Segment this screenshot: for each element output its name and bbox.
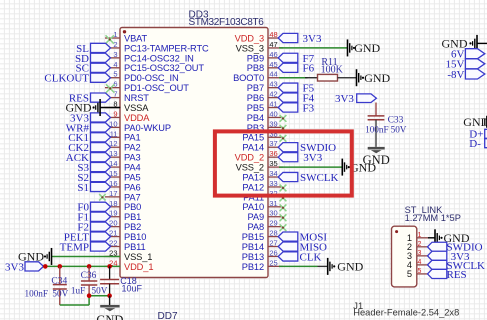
svg-text:PC15-OSC32_OUT: PC15-OSC32_OUT bbox=[124, 63, 204, 73]
no-connect X pin 31 bbox=[280, 204, 287, 211]
pin 39 PB3 bbox=[268, 126, 283, 128]
ground GND at pin 35 bbox=[341, 159, 343, 176]
svg-text:PB10: PB10 bbox=[124, 232, 146, 242]
port SWCLK (ST_LINK pin 4) bbox=[428, 260, 447, 269]
ST_LINK pin 2 bbox=[417, 246, 428, 248]
port 3V3 (pin 36) bbox=[278, 153, 298, 162]
svg-text:C36: C36 bbox=[81, 271, 97, 281]
svg-text:30: 30 bbox=[269, 209, 277, 218]
ST_LINK pin 3 bbox=[417, 255, 428, 257]
svg-text:36: 36 bbox=[269, 149, 277, 158]
port SWCLK (pin 34) bbox=[278, 172, 298, 181]
pin 33 PA12 bbox=[268, 186, 283, 188]
pin 35 VSS_2 bbox=[268, 166, 283, 168]
svg-text:PA2: PA2 bbox=[124, 143, 141, 153]
svg-text:9: 9 bbox=[113, 109, 117, 118]
svg-text:31: 31 bbox=[269, 199, 277, 208]
pin 21 PB10 bbox=[105, 236, 120, 238]
pin 46 PB9 bbox=[268, 57, 283, 59]
junction C36 bottom bbox=[87, 293, 92, 298]
svg-text:PA5: PA5 bbox=[124, 172, 141, 182]
port F7 (pin 46) bbox=[278, 53, 298, 62]
ground GND at R11 bbox=[356, 69, 358, 86]
svg-text:3V3: 3V3 bbox=[303, 33, 322, 45]
svg-text:S1: S1 bbox=[77, 182, 89, 194]
svg-text:17: 17 bbox=[109, 189, 117, 198]
wire pin44 BOOT0 to R11 bbox=[279, 77, 308, 79]
svg-text:39: 39 bbox=[269, 119, 277, 128]
svg-text:PA1: PA1 bbox=[124, 133, 141, 143]
ST_LINK pin 5 bbox=[417, 273, 428, 275]
svg-text:PB7: PB7 bbox=[247, 83, 264, 93]
pin 40 PB4 bbox=[268, 116, 283, 118]
selection box (red) bbox=[215, 131, 352, 195]
svg-text:1: 1 bbox=[113, 30, 117, 39]
pin 10 PA0-WKUP bbox=[105, 126, 120, 128]
wire ST_LINK pin1 to GND bbox=[428, 237, 435, 239]
pin 6 PD1-OSC_OUT bbox=[105, 87, 120, 89]
svg-text:PB6: PB6 bbox=[247, 93, 264, 103]
pin 42 PB6 bbox=[268, 97, 283, 99]
svg-text:37: 37 bbox=[269, 139, 277, 148]
svg-text:28: 28 bbox=[269, 229, 277, 238]
svg-text:5: 5 bbox=[407, 269, 412, 279]
svg-text:GND: GND bbox=[364, 71, 390, 85]
ground GND at pin 8 VSSA bbox=[100, 107, 120, 109]
wire pin35 VSS_2 to GND bbox=[279, 166, 342, 168]
svg-text:25: 25 bbox=[269, 258, 277, 267]
svg-text:PA10: PA10 bbox=[242, 202, 264, 212]
svg-text:100nF: 100nF bbox=[25, 288, 49, 298]
svg-text:DD7: DD7 bbox=[158, 311, 178, 320]
svg-text:1uF: 1uF bbox=[71, 286, 85, 296]
svg-text:3V3: 3V3 bbox=[335, 93, 354, 105]
svg-text:3: 3 bbox=[418, 250, 422, 257]
port F4 (pin 42) bbox=[278, 93, 298, 102]
port 3V3 (pin 48) bbox=[278, 33, 298, 42]
svg-text:Header-Female-2.54_2x8: Header-Female-2.54_2x8 bbox=[353, 308, 459, 318]
svg-text:47: 47 bbox=[269, 40, 277, 49]
port CLK (pin 26) bbox=[278, 252, 298, 261]
no-connect X pin 39 bbox=[280, 125, 287, 132]
no-connect X pin 40 bbox=[280, 115, 287, 122]
svg-text:2: 2 bbox=[418, 241, 422, 248]
svg-text:NRST: NRST bbox=[124, 93, 149, 103]
svg-text:PC14-OSC32_IN: PC14-OSC32_IN bbox=[124, 53, 194, 63]
wire pin25 PB12 to GND bbox=[279, 265, 318, 267]
svg-text:PB2: PB2 bbox=[124, 222, 141, 232]
svg-text:43: 43 bbox=[269, 80, 277, 89]
svg-text:SWCLK: SWCLK bbox=[300, 172, 339, 184]
svg-text:35: 35 bbox=[269, 159, 277, 168]
svg-text:PD1-OSC_OUT: PD1-OSC_OUT bbox=[124, 83, 189, 93]
svg-text:C34: C34 bbox=[51, 276, 67, 286]
ground GND at ST_LINK pin1 bbox=[434, 229, 436, 246]
svg-text:PB8: PB8 bbox=[247, 63, 264, 73]
pin 47 VSS_3 bbox=[268, 47, 283, 49]
svg-text:PC13-TAMPER-RTC: PC13-TAMPER-RTC bbox=[124, 43, 209, 53]
svg-text:26: 26 bbox=[269, 248, 277, 257]
capacitor C36 bbox=[88, 266, 90, 281]
svg-text:40: 40 bbox=[269, 109, 277, 118]
port RES (ST_LINK pin 5) bbox=[428, 269, 447, 278]
svg-text:VSS_1: VSS_1 bbox=[124, 252, 152, 262]
svg-text:VDD_3: VDD_3 bbox=[235, 33, 264, 43]
svg-text:3V3: 3V3 bbox=[5, 261, 24, 273]
svg-text:D-: D- bbox=[469, 138, 481, 150]
svg-text:27: 27 bbox=[269, 239, 277, 248]
svg-text:10uF: 10uF bbox=[122, 284, 143, 294]
svg-text:VBAT: VBAT bbox=[124, 33, 148, 43]
junction C18 bottom bbox=[107, 293, 112, 298]
svg-text:5: 5 bbox=[418, 268, 422, 275]
pin 41 PB5 bbox=[268, 107, 283, 109]
svg-text:VDD_2: VDD_2 bbox=[235, 153, 264, 163]
pin 16 PA6 bbox=[105, 186, 120, 188]
svg-text:PB5: PB5 bbox=[247, 103, 264, 113]
svg-text:PA0-WKUP: PA0-WKUP bbox=[124, 123, 171, 133]
pin 14 PA4 bbox=[105, 166, 120, 168]
pin 23 VSS_1 bbox=[105, 255, 120, 257]
wire pin23 VSS_1 to GND bbox=[52, 255, 121, 257]
svg-text:PB15: PB15 bbox=[242, 232, 264, 242]
pin 32 PA11 bbox=[268, 196, 283, 198]
svg-text:50V: 50V bbox=[391, 124, 407, 134]
pin 26 PB13 bbox=[268, 255, 283, 257]
svg-text:33: 33 bbox=[269, 179, 277, 188]
pin 13 PA3 bbox=[105, 156, 120, 158]
svg-text:GND: GND bbox=[96, 313, 123, 320]
svg-text:100nF: 100nF bbox=[365, 124, 389, 134]
pin 15 PA5 bbox=[105, 176, 120, 178]
svg-text:5: 5 bbox=[113, 70, 117, 79]
svg-text:PA13: PA13 bbox=[242, 172, 264, 182]
no-connect X pin 1 bbox=[106, 35, 114, 43]
pin 38 PA15 bbox=[268, 136, 283, 138]
junction 3V3 rail at port bbox=[43, 264, 48, 269]
svg-text:PB12: PB12 bbox=[242, 262, 264, 272]
svg-text:VSS_3: VSS_3 bbox=[236, 43, 264, 53]
svg-text:VSSA: VSSA bbox=[124, 103, 149, 113]
svg-text:3: 3 bbox=[113, 50, 117, 59]
svg-text:GND: GND bbox=[463, 115, 487, 129]
svg-text:7: 7 bbox=[113, 90, 117, 99]
svg-text:41: 41 bbox=[269, 100, 277, 109]
pin 28 PB15 bbox=[268, 236, 283, 238]
pin 18 PB0 bbox=[105, 206, 120, 208]
svg-text:PB4: PB4 bbox=[247, 113, 264, 123]
pin 20 PB2 bbox=[105, 226, 120, 228]
svg-text:50V: 50V bbox=[52, 288, 68, 298]
svg-text:PA9: PA9 bbox=[247, 212, 264, 222]
svg-text:STM32F103C8T6: STM32F103C8T6 bbox=[189, 17, 265, 28]
svg-text:RES: RES bbox=[447, 269, 467, 281]
no-connect X pin 17 bbox=[99, 194, 105, 200]
svg-text:VDD_1: VDD_1 bbox=[124, 262, 153, 272]
ground GND below C18 bbox=[109, 296, 111, 305]
svg-text:PB14: PB14 bbox=[242, 242, 264, 252]
svg-text:GND: GND bbox=[354, 41, 380, 55]
svg-text:PA15: PA15 bbox=[242, 133, 264, 143]
svg-text:-8V: -8V bbox=[447, 69, 464, 81]
ground GND at pin 47 bbox=[347, 39, 349, 56]
svg-text:PB9: PB9 bbox=[247, 53, 264, 63]
svg-text:PA6: PA6 bbox=[124, 182, 141, 192]
no-connect X pin 33 bbox=[280, 185, 287, 192]
svg-text:29: 29 bbox=[269, 219, 277, 228]
svg-text:VDDA: VDDA bbox=[124, 113, 150, 123]
svg-text:44: 44 bbox=[269, 70, 277, 79]
svg-text:PB1: PB1 bbox=[124, 212, 141, 222]
junction C36 tap bbox=[87, 264, 92, 269]
junction C34 tap bbox=[58, 264, 63, 269]
svg-text:45: 45 bbox=[269, 60, 277, 69]
svg-text:PB11: PB11 bbox=[124, 242, 146, 252]
svg-text:PA7: PA7 bbox=[124, 192, 141, 202]
pin 44 BOOT0 bbox=[268, 77, 283, 79]
pin 45 PB8 bbox=[268, 67, 283, 69]
svg-text:VSS_2: VSS_2 bbox=[236, 162, 264, 172]
pin 25 PB12 bbox=[268, 265, 283, 267]
port F3 (pin 41) bbox=[278, 103, 298, 112]
svg-text:PA3: PA3 bbox=[124, 153, 141, 163]
svg-text:PB0: PB0 bbox=[124, 202, 141, 212]
ST_LINK pin 1 bbox=[417, 237, 428, 239]
IC U-DD3 STM32F103C8T6 body bbox=[120, 28, 268, 278]
svg-text:BOOT0: BOOT0 bbox=[233, 73, 264, 83]
pin 2 PC13-TAMPER-RTC bbox=[105, 47, 120, 49]
svg-text:GND: GND bbox=[363, 153, 390, 167]
svg-text:50V: 50V bbox=[92, 286, 108, 296]
no-connect X pin 30 bbox=[280, 214, 287, 221]
svg-text:PA4: PA4 bbox=[124, 162, 141, 172]
svg-text:PA12: PA12 bbox=[242, 182, 264, 192]
capacitor C33 bbox=[368, 115, 385, 117]
ground GND at pin 23 VSS_1 bbox=[51, 248, 53, 265]
capacitor C18 bbox=[109, 266, 111, 279]
svg-text:3V3: 3V3 bbox=[303, 152, 322, 164]
wire 3V3 port to C33 bbox=[375, 103, 377, 116]
wire pin47 VSS_3 to GND bbox=[279, 47, 348, 49]
no-connect X pin 32 bbox=[280, 194, 287, 201]
svg-text:2: 2 bbox=[113, 40, 117, 49]
pin 17 PA7 bbox=[105, 196, 120, 198]
pin 11 PA1 bbox=[105, 136, 120, 138]
svg-text:PB13: PB13 bbox=[242, 252, 264, 262]
pin 4 PC15-OSC32_OUT bbox=[105, 67, 120, 69]
pin 43 PB7 bbox=[268, 87, 283, 89]
port F6 (pin 45) bbox=[278, 63, 298, 72]
svg-text:42: 42 bbox=[269, 90, 277, 99]
no-connect X pin 38 bbox=[280, 135, 287, 142]
wire 3V3 rail to pin 24 bbox=[44, 265, 121, 267]
resistor R11 bbox=[305, 77, 318, 79]
svg-text:1.27MM 1*5P: 1.27MM 1*5P bbox=[405, 213, 461, 223]
pin 24 VDD_1 bbox=[105, 265, 120, 267]
svg-text:4: 4 bbox=[113, 60, 117, 69]
svg-text:GND: GND bbox=[66, 101, 92, 115]
pin 37 PA14 bbox=[268, 146, 283, 148]
svg-text:PD0-OSC_IN: PD0-OSC_IN bbox=[124, 73, 179, 83]
svg-text:GND: GND bbox=[337, 260, 363, 274]
port SWDIO (pin 37) bbox=[278, 143, 298, 152]
pin 7 NRST bbox=[105, 97, 120, 99]
no-connect X pin 6 bbox=[106, 84, 114, 92]
pin 30 PA9 bbox=[268, 216, 283, 218]
pin 5 PD0-OSC_IN bbox=[105, 77, 120, 79]
pin 19 PB1 bbox=[105, 216, 120, 218]
pin 3 PC14-OSC32_IN bbox=[105, 57, 120, 59]
pin 12 PA2 bbox=[105, 146, 120, 148]
pin 8 VSSA bbox=[105, 107, 120, 109]
pin 31 PA10 bbox=[268, 206, 283, 208]
no-connect X pin 29 bbox=[280, 224, 287, 231]
port SWDIO (ST_LINK pin 2) bbox=[428, 242, 447, 251]
pin 36 VDD_2 bbox=[268, 156, 283, 158]
ground GND at pin 25 bbox=[327, 258, 329, 275]
svg-text:CLKOUT: CLKOUT bbox=[44, 73, 89, 85]
port MISO (pin 27) bbox=[278, 242, 298, 251]
pin 27 PB14 bbox=[268, 246, 283, 248]
svg-text:48: 48 bbox=[269, 30, 277, 39]
pin 48 VDD_3 bbox=[268, 37, 283, 39]
pin 9 VDDA bbox=[105, 116, 120, 118]
ground GND below C33 bbox=[368, 147, 385, 150]
port F5 (pin 43) bbox=[278, 83, 298, 92]
svg-text:4: 4 bbox=[418, 259, 422, 266]
svg-text:1: 1 bbox=[418, 232, 422, 239]
ST_LINK pin 4 bbox=[417, 264, 428, 266]
svg-text:F6: F6 bbox=[303, 63, 315, 75]
port MOSI (pin 28) bbox=[278, 232, 298, 241]
pin 22 PB11 bbox=[105, 246, 120, 248]
svg-text:TEMP: TEMP bbox=[60, 241, 89, 253]
svg-text:CLK: CLK bbox=[300, 251, 322, 263]
svg-text:34: 34 bbox=[269, 169, 277, 178]
junction C18 tap bbox=[107, 264, 112, 269]
svg-text:46: 46 bbox=[269, 50, 277, 59]
pin 34 PA13 bbox=[268, 176, 283, 178]
capacitor C34 bbox=[59, 266, 61, 284]
svg-text:PA8: PA8 bbox=[247, 222, 264, 232]
pin 1 VBAT bbox=[105, 37, 120, 39]
svg-text:F3: F3 bbox=[303, 102, 315, 114]
connector J? ST_LINK body bbox=[392, 226, 417, 287]
svg-text:PA14: PA14 bbox=[242, 143, 264, 153]
port 3V3 (ST_LINK pin 3) bbox=[428, 251, 447, 260]
pin 29 PA8 bbox=[268, 226, 283, 228]
wire cap bottoms rail bbox=[60, 304, 89, 306]
svg-text:100K: 100K bbox=[321, 65, 344, 76]
